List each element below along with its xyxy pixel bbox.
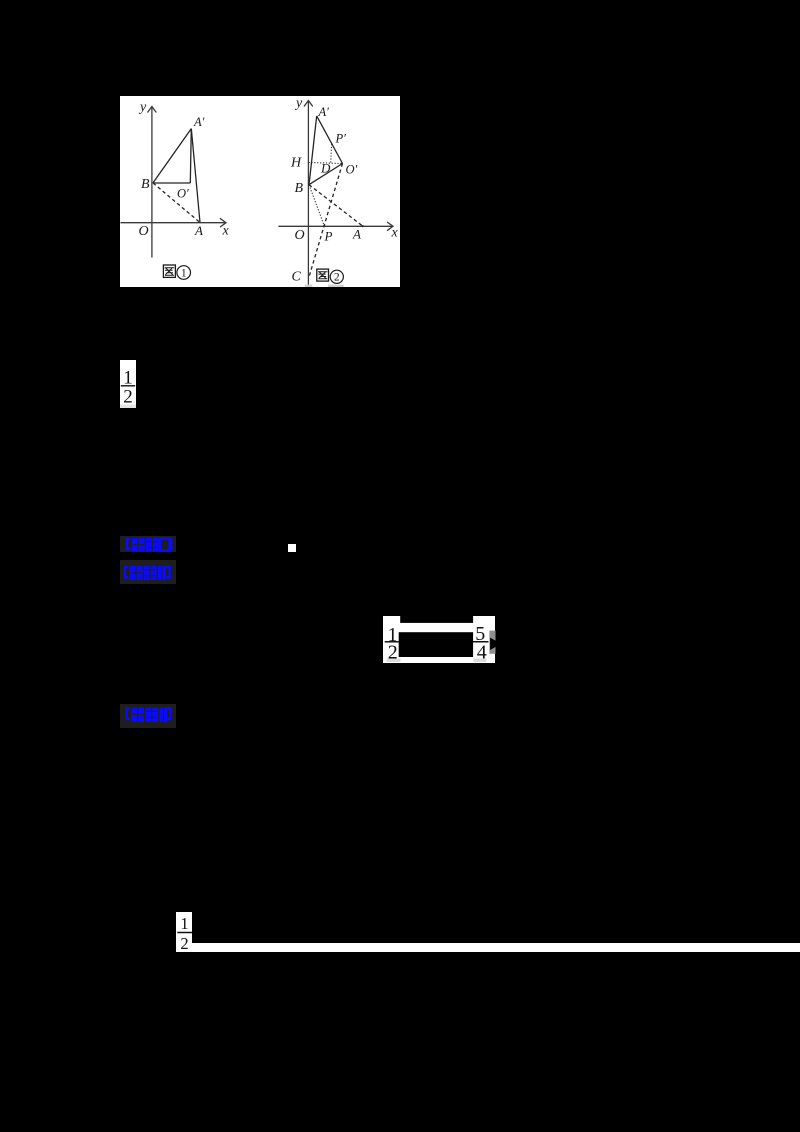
fraction 1/2 (first) <box>120 360 136 408</box>
svg-text:2: 2 <box>180 934 188 953</box>
fig2 dotted H-O' <box>308 162 342 163</box>
svg-text:A: A <box>352 226 361 241</box>
svg-text:B: B <box>295 181 304 196</box>
svg-text:O: O <box>139 224 149 239</box>
fig1 caption 图① <box>163 265 190 279</box>
fig2 dashed O'-P-C <box>309 163 343 277</box>
fig2 dotted B-P <box>309 184 324 225</box>
svg-text:x: x <box>222 223 230 238</box>
fig1 y-axis <box>151 106 153 257</box>
svg-text:1: 1 <box>181 267 187 279</box>
svg-text:2: 2 <box>334 271 340 283</box>
svg-text:y: y <box>294 96 303 111</box>
svg-text:D: D <box>320 160 331 175</box>
fraction 1/2 (bottom) <box>176 912 192 952</box>
svg-text:y: y <box>138 100 147 115</box>
fig2 dashed B-A <box>309 184 363 225</box>
svg-text:O′: O′ <box>346 162 358 176</box>
blue label strip 1 <box>120 536 176 552</box>
svg-text:A: A <box>194 223 203 238</box>
svg-text:1: 1 <box>180 914 188 933</box>
svg-text:O: O <box>295 228 305 243</box>
fig1 dashed B-A <box>153 183 200 223</box>
equation box 1/2 ... = 5/4 <box>383 616 496 663</box>
fig2 caption 图② <box>317 269 344 283</box>
fig2 x-axis <box>278 225 393 227</box>
fig1 x-axis <box>121 221 227 223</box>
svg-text:P′: P′ <box>335 131 347 145</box>
svg-text:H: H <box>290 155 302 170</box>
svg-text:x: x <box>391 225 399 240</box>
fig2 triangle A'-B-O' <box>309 115 317 184</box>
figure box with 图① and 图② <box>120 96 400 287</box>
fig2 dotted P'-D <box>330 143 333 162</box>
white square bullet <box>288 544 296 552</box>
svg-text:A′: A′ <box>193 115 205 129</box>
svg-text:B: B <box>141 177 150 192</box>
blue label strip 3 <box>120 704 176 728</box>
fig1 triangle B-A'-O' and A'-A <box>153 128 191 182</box>
long white strip bottom <box>192 943 800 952</box>
svg-text:A′: A′ <box>318 105 330 119</box>
fig2 y-axis <box>307 100 309 285</box>
svg-text:P: P <box>324 228 333 243</box>
svg-text:2: 2 <box>123 386 133 407</box>
svg-text:C: C <box>292 269 302 284</box>
svg-text:O′: O′ <box>177 186 189 200</box>
blue label strip 2 <box>120 560 176 584</box>
